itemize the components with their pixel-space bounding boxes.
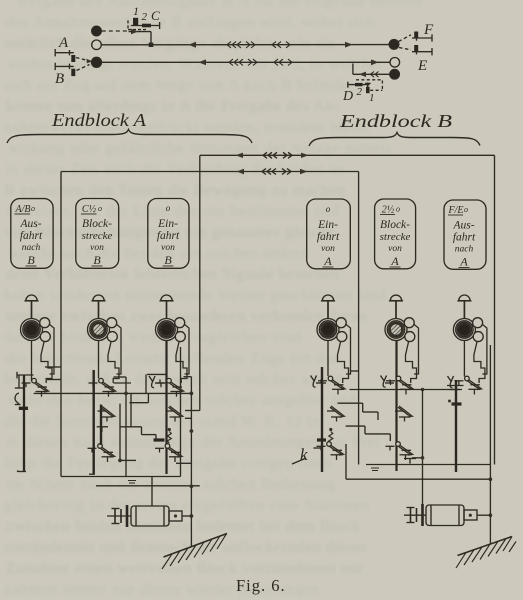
track arrows right [345, 42, 379, 65]
instrument 2 armature linkage [108, 324, 121, 383]
instrument 5 lower ticks [404, 459, 416, 464]
node on wire y391 [124, 392, 128, 396]
earth riser left [190, 486, 192, 546]
signal disc S4 right (filled) [389, 40, 399, 50]
left block right riser [176, 377, 191, 487]
instrument 3 contact lever lower [155, 444, 184, 462]
svg-text:fahrt: fahrt [157, 230, 180, 242]
left block step wire y402 [129, 393, 148, 402]
brace Endblock B [309, 133, 480, 147]
svg-text:F/E: F/E [448, 205, 464, 216]
signal disc S5 right (open) [390, 58, 400, 68]
track chevrons middle [227, 42, 292, 66]
track 1 [102, 44, 389, 46]
instrument 3 left tick [155, 380, 164, 384]
left block cross wire y391 [34, 392, 192, 394]
magnet M1 wire to earth riser [182, 515, 191, 517]
svg-text:von: von [90, 243, 104, 253]
instrument 1 heavy contact bar [19, 407, 28, 410]
left block riser to instrument 3 wire [145, 374, 147, 393]
instrument 4 armature linkage [338, 324, 351, 383]
instrument 4 gamma hook [311, 376, 317, 388]
svg-text:Aus-: Aus- [452, 220, 474, 232]
instrument 2 contact lever upper [89, 378, 118, 396]
svg-text:von: von [321, 244, 335, 254]
instrument 6 heavy down wire [455, 380, 457, 472]
left block bottom wire y486 [96, 485, 200, 487]
instrument 4 contact lever middle [327, 406, 346, 422]
svg-text:D: D [342, 89, 353, 104]
svg-text:B: B [93, 253, 101, 267]
svg-text:A: A [58, 35, 69, 51]
dashed links from S4 [399, 35, 412, 50]
svg-text:o: o [396, 205, 400, 214]
track 2 [102, 61, 390, 63]
electromagnet M2 [404, 504, 477, 526]
wire A right vertical down [494, 155, 496, 464]
svg-text:C: C [151, 8, 160, 23]
instrument 2 heavy down wire [89, 370, 95, 474]
instrument 1 contact lever [22, 378, 51, 396]
block instrument 5 (dome, disc) [385, 295, 415, 342]
instrument 6 contact lever [454, 376, 483, 394]
instrument 4 heavy contact bar [317, 438, 326, 441]
left block frame left edge [60, 172, 62, 477]
brace Endblock A [7, 130, 252, 144]
svg-text:o: o [31, 204, 35, 213]
instrument 6 left ticks [447, 386, 464, 403]
instrument 5 contact lever lower [386, 442, 415, 460]
instrument 3 spring contact [167, 428, 171, 443]
svg-text:fahrt: fahrt [20, 230, 43, 242]
instrument box 2: Blockstrecke von B [76, 199, 119, 269]
block instrument 1 (dome, disc) [21, 295, 51, 342]
signal lever B [55, 63, 75, 76]
svg-text:A/B: A/B [15, 204, 31, 215]
earth (ground) left [162, 534, 227, 570]
right block frame right edge [489, 345, 491, 465]
instrument 4 stem lower [327, 341, 329, 377]
node on track 1 [149, 43, 154, 47]
instrument 4 heavy down wire [321, 367, 323, 472]
svg-text:Ein-: Ein- [317, 219, 338, 231]
node on wire y389 [421, 388, 425, 392]
svg-text:B: B [55, 71, 64, 87]
svg-text:Fig. 6.: Fig. 6. [236, 576, 286, 595]
svg-text:o: o [464, 205, 468, 214]
instrument 6 armature linkage [474, 324, 487, 383]
instrument 6 heavy contact bar [452, 402, 462, 405]
right block frame left edge [358, 172, 360, 465]
instrument 1 stem lower [31, 341, 33, 381]
signal disc S6 right (filled) [390, 69, 400, 79]
svg-text:C½: C½ [82, 204, 97, 215]
instrument 1 links to frame [45, 367, 61, 380]
svg-text:fahrt: fahrt [317, 231, 340, 243]
dashed links to S3 [76, 58, 90, 71]
instrument 4 left tick [316, 380, 326, 384]
contact key D-2-1 [348, 82, 371, 94]
instrument 3 stem (continues down) [165, 341, 167, 475]
instrument 2 stem lower [98, 341, 100, 379]
svg-text:B: B [27, 253, 35, 267]
right block fuse marks [371, 468, 379, 471]
wire A left vertical down [199, 155, 201, 410]
instrument 3 heavy contact bar [154, 438, 165, 441]
instrument 3 gamma hook [149, 376, 155, 388]
instrument box 3: Einfahrt von B [148, 199, 189, 269]
svg-text:Ein-: Ein- [157, 218, 178, 230]
earth (ground) right [456, 537, 516, 569]
node x120 y460 [118, 459, 122, 463]
instrument 4 contact lever upper [318, 376, 347, 394]
dashed link to key D [356, 80, 382, 91]
svg-text:E: E [417, 58, 427, 74]
svg-text:1: 1 [369, 92, 375, 104]
wire A (upper long connecting wire) [200, 154, 495, 156]
instrument 3 contact lever upper [157, 378, 186, 396]
signal disc S3 (filled) [92, 57, 102, 67]
instrument 1 left contact column [15, 372, 34, 472]
right block step wire y426 [346, 426, 391, 441]
instrument 4 link to frame [351, 370, 359, 372]
svg-text:A: A [459, 255, 468, 269]
instrument box 6: Ausfahrt nach A [444, 200, 486, 269]
svg-text:Block-: Block- [82, 218, 112, 230]
instrument 3 armature linkage [176, 324, 189, 383]
instrument 4 contact lever lower [317, 442, 346, 460]
svg-text:o: o [326, 204, 331, 214]
right block frame bottom [366, 464, 490, 466]
left block frame bottom [61, 476, 181, 478]
svg-text:A: A [323, 254, 332, 268]
svg-text:von: von [388, 244, 402, 254]
signal lever F [412, 32, 432, 42]
svg-text:strecke: strecke [380, 231, 411, 243]
instrument 5 armature linkage [406, 324, 419, 383]
right block cross wire y389 [350, 389, 463, 391]
block instrument 6 (dome, disc) [453, 295, 483, 342]
instrument 2 contact lever middle [98, 406, 117, 422]
right block step wire y403 [338, 403, 379, 420]
svg-text:Block-: Block- [380, 219, 410, 231]
left block link instr2 to bus [114, 377, 127, 477]
signal disc S1 (filled) [92, 26, 102, 36]
instrument 2 contact lever lower [88, 444, 117, 462]
block instrument 2 (dome, disc) [88, 295, 118, 342]
track arrows left [189, 42, 207, 65]
instrument 5 contact lever upper [386, 376, 415, 394]
svg-text:1: 1 [133, 4, 139, 18]
node y486 [190, 484, 194, 488]
instrument 5 left tick [385, 380, 394, 384]
svg-text:nach: nach [22, 243, 41, 253]
svg-text:A: A [390, 254, 399, 268]
instrument box 1: Ausfahrt nach B [11, 199, 53, 269]
instrument box 4: Einfahrt von A [307, 199, 351, 269]
earth riser right [489, 465, 491, 544]
svg-text:Endblock B: Endblock B [339, 111, 452, 131]
node at M1 cap [190, 514, 194, 518]
wire B arrows [237, 169, 308, 175]
node at M2 cap [489, 513, 493, 517]
instrument 4 spring contact [329, 428, 333, 443]
left block step wire y427 [120, 427, 156, 440]
instrument 3 contact lever middle [166, 406, 185, 422]
instrument box 5: Blockstrecke von A [375, 199, 416, 269]
svg-text:o: o [166, 203, 171, 213]
left block riser x120 [120, 404, 136, 461]
instrument 2 heavy bracket [97, 405, 108, 445]
signal lever E [412, 45, 432, 55]
electromagnet M1 [107, 505, 182, 527]
magnet M2 wire to earth riser [477, 514, 490, 516]
svg-text:von: von [161, 243, 175, 253]
wire A arrows [236, 152, 309, 158]
svg-text:2½: 2½ [382, 205, 395, 216]
contact key 1-2-C (top left detail) [128, 18, 160, 30]
right block tick to node [412, 457, 423, 459]
signal lever A [55, 49, 75, 62]
node y479 [489, 477, 493, 481]
svg-text:k: k [300, 445, 308, 464]
svg-text:B: B [164, 253, 172, 267]
instrument 5 gamma hook [381, 376, 387, 388]
wire B (lower connecting wire / box tops) [61, 171, 359, 173]
arrowhead on link [87, 59, 93, 64]
dashed wire from S1 [102, 30, 127, 32]
left block frame right edge [180, 347, 182, 477]
instrument 5 stem (continues down) [395, 341, 397, 472]
wire from S6 left [353, 64, 390, 78]
instrument 5 contact lever middle [395, 406, 414, 422]
instrument 3 wire in [147, 373, 167, 375]
magnet M1 feed from box [151, 477, 153, 507]
block instrument 3 (dome, disc) [156, 295, 186, 342]
wire from key C down to track 1 [129, 29, 151, 45]
node x422 y457 [421, 456, 425, 460]
svg-text:Endblock A: Endblock A [51, 110, 147, 130]
instrument 1 foot [17, 470, 26, 472]
svg-text:fahrt: fahrt [453, 232, 476, 244]
svg-text:o: o [98, 204, 102, 213]
left block fuse marks [128, 481, 136, 484]
right block bottom wire y479 [346, 478, 490, 480]
svg-text:strecke: strecke [82, 230, 113, 242]
right block riser x346 [345, 444, 347, 479]
instrument 6 stem lower [463, 341, 465, 377]
svg-text:Aus-: Aus- [19, 218, 41, 230]
signal disc S2 (open) [92, 40, 102, 50]
right block riser x422 [422, 390, 424, 506]
label k underline dash [292, 459, 305, 465]
instrument 1 armature linkage [41, 324, 54, 383]
instrument 6 gamma hook [448, 376, 454, 388]
svg-text:2: 2 [142, 11, 148, 23]
block instrument 4 (dome, disc) [317, 295, 347, 342]
svg-text:nach: nach [455, 245, 474, 255]
svg-text:2: 2 [357, 86, 363, 98]
left block link lower [114, 383, 132, 427]
